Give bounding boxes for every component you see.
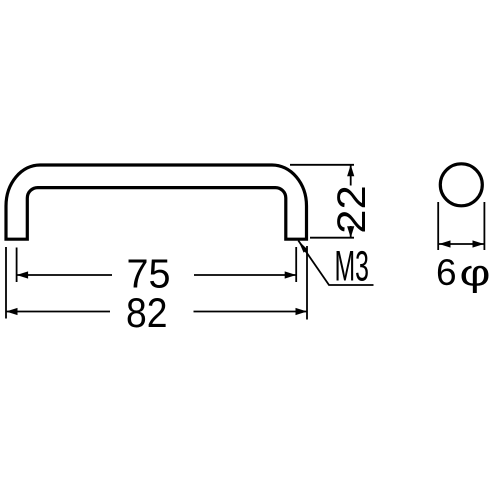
dimension line 22 bottom segment [350,226,352,238]
arrow 6phi left [439,240,451,247]
arrow 75 left [17,271,29,278]
extension line right outer (82) [306,246,308,320]
arrow 75 right [285,271,297,278]
arrow 82 right [296,308,308,315]
extension line circle right [483,202,485,250]
extension line right leg center (75) [295,247,297,282]
dimension line 75 right segment [194,274,296,276]
extension line left leg center (75) [16,248,18,283]
dimension line 6phi [439,243,484,245]
dimension line 22 top segment [350,165,352,186]
dimension line 75 left segment [17,274,112,276]
extension line bottom right (22) [310,237,354,239]
arrow 22 bottom [347,226,354,238]
extension line left outer (82) [5,247,7,319]
svg-text:φ: φ [460,253,491,294]
leader arrow M3 [298,241,308,253]
extension line top right (22) [290,164,354,166]
arrow 6phi right [473,240,485,247]
handle body outline (U-shaped pull) [6,165,307,239]
extension line circle left [437,202,439,250]
arrow 82 left [6,308,18,315]
section circle (bar diameter) [440,164,482,206]
leader line M3 [298,241,373,286]
svg-text:6: 6 [436,252,457,293]
arrow 22 top [347,165,354,177]
svg-text:22: 22 [330,185,374,234]
svg-text:82: 82 [126,289,168,336]
svg-text:M3: M3 [335,243,370,290]
dimension line 82 left segment [6,311,110,313]
dimension line 82 right segment [194,311,308,313]
